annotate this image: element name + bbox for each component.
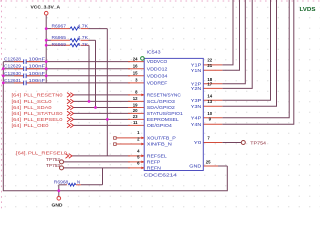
svg-text:GND: GND	[52, 203, 64, 208]
svg-text:EEPROMSEL: EEPROMSEL	[147, 117, 180, 122]
svg-text:Y0: Y0	[194, 140, 202, 145]
svg-text:4.7K: 4.7K	[77, 42, 88, 47]
svg-text:PLL_REFSEL0: PLL_REFSEL0	[28, 151, 68, 156]
svg-text:IC543: IC543	[147, 50, 162, 55]
svg-text:22: 22	[207, 57, 212, 62]
svg-text:4.7K: 4.7K	[77, 35, 88, 40]
svg-text:R6965: R6965	[52, 35, 67, 40]
svg-text:25: 25	[206, 159, 211, 164]
svg-text:Y3N: Y3N	[191, 104, 202, 109]
svg-text:PLL_STATUS0: PLL_STATUS0	[24, 111, 64, 116]
svg-text:R6967: R6967	[52, 23, 67, 28]
svg-text:VDDO34: VDDO34	[147, 73, 168, 78]
svg-text:C12629: C12629	[4, 64, 22, 69]
svg-text:17: 17	[207, 82, 212, 87]
svg-text:100nF: 100nF	[29, 64, 46, 69]
svg-text:14: 14	[207, 94, 212, 99]
svg-text:24: 24	[133, 56, 138, 61]
svg-text:[64]: [64]	[12, 93, 22, 98]
svg-text:21: 21	[207, 63, 212, 68]
svg-text:PLL_SDA0: PLL_SDA0	[24, 105, 53, 110]
svg-text:RESETN/SYNC: RESETN/SYNC	[147, 93, 181, 98]
svg-text:PLL_OE0: PLL_OE0	[24, 123, 50, 128]
svg-text:PLL_RESETN0: PLL_RESETN0	[24, 93, 64, 98]
svg-text:PLL_EEPSEL0: PLL_EEPSEL0	[24, 117, 64, 122]
svg-text:REFP: REFP	[147, 160, 161, 165]
svg-text:100nF: 100nF	[29, 71, 46, 76]
svg-text:[64]: [64]	[12, 123, 22, 128]
svg-text:C12628: C12628	[4, 57, 22, 62]
svg-text:VDDO12: VDDO12	[147, 66, 168, 71]
svg-text:Y1N: Y1N	[191, 68, 202, 73]
svg-text:15: 15	[133, 71, 138, 76]
svg-text:REFSEL: REFSEL	[147, 154, 168, 159]
svg-text:11: 11	[133, 120, 138, 125]
svg-text:PLL_SCL0: PLL_SCL0	[24, 99, 53, 104]
svg-text:100nF: 100nF	[29, 78, 46, 83]
svg-text:TP752: TP752	[46, 157, 61, 162]
svg-text:19: 19	[133, 102, 138, 107]
svg-text:STATUS/GPIO1: STATUS/GPIO1	[147, 111, 184, 116]
svg-text:100nF: 100nF	[29, 57, 46, 62]
svg-text:C12630: C12630	[4, 71, 22, 76]
svg-text:REFN: REFN	[147, 166, 161, 171]
svg-text:R6969: R6969	[52, 42, 67, 47]
svg-text:SDA/GPIO2: SDA/GPIO2	[147, 105, 176, 110]
svg-text:Y4N: Y4N	[191, 122, 202, 127]
svg-text:VDDVCO: VDDVCO	[147, 59, 168, 64]
svg-text:12: 12	[133, 96, 138, 101]
svg-text:LVDS: LVDS	[300, 7, 316, 13]
svg-text:10: 10	[207, 111, 212, 116]
svg-text:CDCE6214: CDCE6214	[144, 173, 178, 178]
svg-text:Y1P: Y1P	[191, 63, 202, 68]
svg-text:XIN/FB_N: XIN/FB_N	[147, 142, 172, 147]
svg-text:C12631: C12631	[4, 78, 22, 83]
svg-text:VCC_3.3V_A: VCC_3.3V_A	[31, 5, 61, 10]
svg-text:20: 20	[133, 108, 138, 113]
svg-text:R6968: R6968	[54, 179, 69, 184]
svg-text:Y2N: Y2N	[191, 86, 202, 91]
svg-text:23: 23	[133, 114, 138, 119]
svg-text:OE/GPIO4: OE/GPIO4	[147, 123, 173, 128]
svg-text:[64]: [64]	[12, 117, 22, 122]
svg-text:[64]: [64]	[16, 151, 26, 156]
svg-text:XOUT/FB_P: XOUT/FB_P	[147, 136, 176, 141]
svg-text:GND: GND	[189, 164, 201, 169]
svg-text:Y4P: Y4P	[191, 115, 202, 120]
svg-text:[64]: [64]	[12, 105, 22, 110]
svg-text:VDDREF: VDDREF	[147, 81, 168, 86]
svg-text:TP754: TP754	[250, 141, 266, 146]
svg-text:13: 13	[207, 99, 212, 104]
svg-text:N: N	[77, 179, 80, 184]
svg-text:16: 16	[133, 64, 138, 69]
svg-text:SCL/GPIO3: SCL/GPIO3	[147, 99, 176, 104]
svg-text:[64]: [64]	[12, 99, 22, 104]
svg-text:TP753: TP753	[46, 163, 61, 168]
svg-text:[64]: [64]	[12, 111, 22, 116]
svg-text:4.7K: 4.7K	[77, 23, 88, 28]
svg-text:Y3P: Y3P	[191, 98, 202, 103]
